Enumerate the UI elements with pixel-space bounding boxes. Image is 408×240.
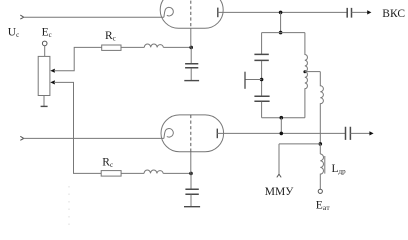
wire V1 anode to output cap — [218, 11, 347, 13]
wire input top to cathode — [24, 16, 164, 18]
wire grid V1 down — [190, 28, 192, 47]
wire MMU horizontal — [279, 143, 320, 145]
tube V2 anode bar — [216, 129, 218, 139]
inductor L_dr (choke) — [320, 154, 323, 189]
capacitor C3 (output coupling top) — [347, 8, 351, 18]
arrow output bottom — [369, 131, 373, 135]
svg-text:ММУ: ММУ — [265, 186, 294, 198]
node: MMU T junction — [319, 142, 323, 146]
tap terminal bar — [244, 72, 246, 89]
node: grid junction bottom — [189, 172, 193, 176]
wire wiper2 down to Rc bottom — [54, 82, 101, 173]
wire coil to grid junction top — [163, 46, 191, 48]
wire output top — [352, 11, 369, 13]
tube V1 cathode curl — [164, 7, 173, 17]
wire tank bottom horizontal — [262, 117, 305, 119]
choke core line — [324, 156, 326, 174]
wire resistor to coil bottom — [121, 172, 144, 174]
svg-text:Uс: Uс — [8, 27, 19, 40]
ground (grid cap bottom) — [184, 206, 200, 208]
inductor (grid choke top) — [144, 44, 163, 47]
MMU fork — [277, 174, 281, 177]
wire between caps — [261, 61, 263, 96]
wire V2 anode to output cap — [217, 132, 345, 134]
wire wiper1 to Rc top — [54, 47, 102, 70]
tube V2 cathode curl — [164, 129, 173, 139]
capacitor C4 (output coupling bottom) — [346, 127, 351, 140]
wire anode junction down to tank top — [280, 12, 282, 32]
tube V2 grid (dashed) — [190, 115, 192, 152]
wire coil tap to right — [305, 71, 320, 73]
terminal circle E_at — [318, 189, 322, 193]
capacitor C1 (tank, upper) — [254, 54, 268, 60]
wire cap to ground — [190, 68, 192, 80]
node: tank top T — [279, 31, 283, 35]
input fork top (connector arrow) — [20, 15, 23, 19]
wire grid V2 down — [190, 152, 192, 174]
wire cap to ground bottom — [190, 195, 192, 207]
svg-text:Rс: Rс — [102, 156, 113, 169]
wire junction to cap — [190, 47, 192, 63]
node: capacitive tap — [260, 78, 264, 82]
arrow output top — [367, 10, 371, 14]
wire coil to grid junction bottom — [163, 172, 191, 174]
inductor L2 (coupling coil) — [320, 72, 323, 144]
svg-text:ВКС: ВКС — [382, 8, 405, 20]
node: grid junction top — [189, 46, 193, 50]
resistor Rc (top) — [102, 45, 121, 50]
svg-text:Lдр: Lдр — [332, 163, 347, 176]
svg-text:Ес: Ес — [42, 26, 52, 39]
inductor (grid choke bottom) — [144, 170, 163, 173]
wire to choke — [319, 144, 321, 154]
potentiometer body — [38, 56, 50, 95]
tube V1 grid (dashed) — [190, 0, 192, 28]
svg-text:Еат: Еат — [316, 200, 331, 213]
wire tank bottom to anode wire 2 — [280, 118, 282, 134]
wire junction to cap bottom — [190, 173, 192, 189]
wire output bottom — [350, 132, 370, 134]
ground (potentiometer) — [41, 105, 48, 107]
wire tap to bar — [245, 79, 262, 81]
artifact faint dotted line — [68, 186, 70, 225]
node: tank bottom T — [280, 116, 284, 120]
tube V1 envelope (top, partially cut) — [160, 0, 223, 28]
wire tank left branch lower — [261, 102, 263, 118]
wire resistor to coil top — [121, 46, 144, 48]
capacitor C6 (grid bypass bottom) — [185, 189, 198, 194]
inductor L1 (tank coil lower half) — [305, 72, 308, 118]
wire E_c to potentiometer — [44, 46, 46, 57]
wire input bottom to cathode — [24, 137, 164, 139]
resistor Rc (bottom) — [101, 171, 121, 177]
node: anode/tank junction top — [279, 11, 283, 15]
tube V1 anode bar — [217, 8, 219, 18]
wiper arrow 2 — [50, 80, 55, 84]
wire potentiometer to ground — [43, 96, 45, 107]
wire tank left branch upper — [261, 33, 263, 54]
terminal circle E_c — [42, 41, 47, 46]
ground (grid cap top) — [184, 80, 199, 82]
node: anode2 tank-bottom junction — [280, 132, 284, 136]
svg-text:Rс: Rс — [105, 30, 116, 43]
tube V2 envelope — [161, 115, 224, 152]
inductor L1 (tank coil upper half) — [305, 33, 308, 72]
node: coil tap — [303, 70, 306, 73]
capacitor C5 (grid bypass top) — [185, 64, 198, 68]
wiper arrow 1 — [50, 69, 55, 73]
capacitor C2 (tank, lower) — [254, 96, 269, 101]
wire MMU vertical — [278, 144, 280, 174]
wire tank top horizontal — [262, 32, 305, 34]
input fork bottom — [20, 136, 23, 140]
